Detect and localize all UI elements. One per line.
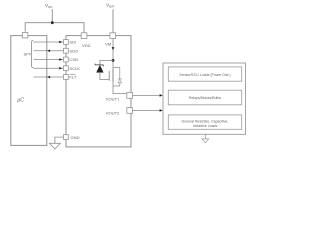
- node VDD junction dot: [51, 21, 54, 24]
- pin label SDO: [69, 48, 78, 53]
- wire VM internal: [112, 39, 114, 70]
- svg-text:SPI: SPI: [23, 51, 30, 56]
- load box 3 General loads: [168, 115, 241, 129]
- arrowhead VOUT2 into loads: [160, 109, 163, 112]
- pin box SDO: [64, 48, 69, 53]
- node VM junction dot: [112, 59, 115, 62]
- arrowhead SDI into IC: [59, 41, 62, 44]
- arrowhead SDO into uC: [47, 49, 50, 52]
- wire SDI: [34, 41, 64, 43]
- pin box VOUT1: [127, 93, 133, 99]
- wire FLT: [34, 76, 64, 78]
- arrowhead VOUT1 into loads: [160, 94, 163, 97]
- pin label SDI: [69, 40, 76, 45]
- svg-text:SDO: SDO: [69, 48, 78, 53]
- VBAT supply label: [106, 3, 115, 9]
- wire SDO: [34, 50, 64, 52]
- pin box IC VM: [110, 33, 116, 39]
- wire VOUT2 to loads: [133, 109, 160, 111]
- pin label VDD: [82, 43, 91, 48]
- svg-text:General Resistive, Capacitive,: General Resistive, Capacitive,: [182, 119, 229, 123]
- pin box FLT: [64, 75, 69, 80]
- pin box SDI: [64, 40, 69, 45]
- pin box VOUT2: [127, 108, 133, 114]
- pin label CSN: [69, 57, 78, 62]
- wire source to VOUT1: [113, 82, 128, 96]
- pin box SCLK: [64, 66, 69, 71]
- wire gate lead: [100, 79, 109, 81]
- svg-text:VOUT1: VOUT1: [106, 96, 120, 101]
- VBAT supply wire: [112, 9, 114, 33]
- pin label GND: [71, 135, 80, 140]
- pin label VM: [105, 42, 112, 47]
- svg-text:CSN: CSN: [69, 57, 78, 62]
- VDD supply label: [45, 3, 53, 9]
- transistor M1 channel bar: [112, 69, 114, 81]
- zener diode clamp D1: [95, 64, 104, 80]
- pin label SCLK: [69, 66, 80, 71]
- load box 1 Sensor/ECU: [168, 67, 241, 81]
- pin label FLT with overline: [69, 74, 76, 79]
- svg-text:VDD: VDD: [45, 3, 53, 9]
- load system outer box: [163, 63, 246, 134]
- svg-text:Relays/Motors/Bulbs: Relays/Motors/Bulbs: [189, 96, 221, 100]
- arrowhead FLT into uC: [47, 76, 50, 79]
- arrowhead CSN into IC: [59, 58, 62, 61]
- svg-text:Inductive Loads: Inductive Loads: [193, 124, 218, 128]
- wire GND to ground: [55, 137, 63, 143]
- SPI group brace: [30, 40, 33, 67]
- microcontroller block uC: [11, 36, 47, 146]
- pin label VOUT1: [106, 96, 120, 101]
- wire SCLK: [34, 67, 64, 69]
- svg-text:GND: GND: [71, 135, 80, 140]
- transistor M1 gate bar: [108, 71, 110, 81]
- uC label: [17, 97, 24, 103]
- svg-text:FLT: FLT: [69, 75, 76, 80]
- svg-text:VBAT: VBAT: [106, 3, 115, 9]
- svg-text:VOUT2: VOUT2: [106, 111, 120, 116]
- ground symbol right: [202, 139, 209, 143]
- pin box uC VDD: [22, 33, 27, 38]
- wire zener branch: [100, 60, 113, 65]
- pin box GND: [64, 135, 69, 140]
- wire loads to ground: [204, 134, 206, 139]
- VDD supply rail wire: [25, 9, 84, 33]
- svg-text:VDD: VDD: [82, 43, 91, 48]
- load box 2 Relays/Motors/Bulbs: [168, 90, 241, 105]
- IC block (smart high-side switch): [66, 36, 131, 147]
- wire CSN: [34, 59, 64, 61]
- svg-text:Sensor/ECU Loads (Power Dist.): Sensor/ECU Loads (Power Dist.): [179, 73, 230, 77]
- wire VOUT1 to loads: [133, 94, 160, 96]
- pin box IC VDD: [81, 33, 87, 39]
- arrowhead SCLK into IC: [59, 67, 62, 70]
- svg-text:µC: µC: [17, 97, 24, 103]
- svg-text:SDI: SDI: [69, 40, 76, 45]
- ground symbol left: [49, 143, 60, 149]
- pin label VOUT2: [106, 111, 120, 116]
- svg-text:VM: VM: [105, 42, 112, 47]
- transistor M1 body diode: [113, 67, 122, 86]
- pin box CSN: [64, 57, 69, 62]
- svg-text:SCLK: SCLK: [69, 66, 80, 71]
- SPI label: [23, 51, 30, 56]
- arrowhead current direction down on VM wire: [112, 47, 115, 50]
